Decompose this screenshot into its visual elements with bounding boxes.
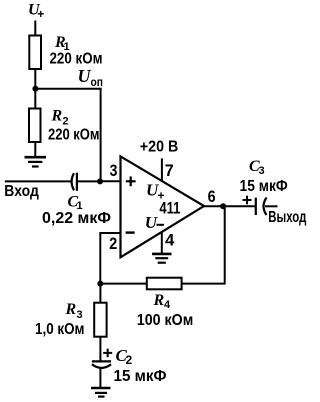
svg-text:U: U [145,213,158,232]
svg-text:4: 4 [165,230,175,249]
svg-text:3: 3 [110,161,118,180]
wire R2 to ground [34,142,36,157]
label R2 [51,108,69,128]
svg-text:Вход: Вход [4,183,39,200]
svg-text:R: R [65,301,77,318]
op-amp U1 triangle [121,156,205,257]
label U+ internal [146,181,165,203]
wire node A to R2 [34,89,36,109]
label Uop [78,66,104,89]
plus sign for C3 [243,196,252,205]
svg-text:U: U [78,66,92,86]
svg-text:оп: оп [91,75,104,89]
wire input from Vhod to C1 [5,180,71,182]
wire C1 to node B [77,180,100,182]
wire node C down to R3 [99,284,101,304]
svg-text:3: 3 [259,165,265,177]
svg-text:411: 411 [159,199,180,218]
wire C2 to ground [99,369,101,388]
wire op-amp output to node D [204,205,256,207]
node C junction dot [97,281,103,287]
plus sign for C2 [103,349,112,358]
ground below C2 [91,388,111,397]
node D junction dot [220,203,226,209]
node A junction dot [32,86,38,92]
node B junction dot [97,178,103,184]
label R3 [65,301,83,321]
resistor R4 [147,278,182,290]
resistor R3 [94,303,106,337]
wire node C to R4 [100,283,147,285]
wire node A to Uop corner down to node B [35,88,101,182]
svg-text:R: R [51,108,63,125]
svg-text:2: 2 [126,353,133,367]
svg-text:2: 2 [109,234,117,253]
svg-text:7: 7 [165,161,174,180]
resistor R2 [29,109,41,143]
wire R3 to C2 [99,337,101,362]
svg-text:4: 4 [164,299,171,311]
svg-text:+: + [37,7,44,21]
wire U+ to R1 [34,21,36,37]
svg-text:100 кОм: 100 кОм [137,312,194,329]
svg-text:Выход: Выход [268,209,306,226]
wire C3 to output [265,205,278,207]
ground below pin 4 [152,254,171,263]
capacitor C1 [72,173,77,191]
ground below R2 [25,157,47,166]
label R1 [54,34,70,53]
svg-text:220 кОм: 220 кОм [48,126,100,143]
minus marker at pin 2 input [126,231,135,233]
svg-text:1,0 кОм: 1,0 кОм [35,321,85,338]
svg-text:+20 В: +20 В [140,139,179,156]
capacitor C3 [256,198,267,216]
svg-text:15 мкФ: 15 мкФ [114,368,167,385]
svg-text:220 кОм: 220 кОм [50,51,103,68]
resistor R1 [29,36,41,70]
label C3 [249,158,265,177]
label R4 [153,292,172,311]
svg-text:0,22 мкФ: 0,22 мкФ [42,210,111,227]
wire R4 to output node [182,205,225,283]
pin 7 wire [161,158,163,182]
svg-text:R: R [153,292,165,309]
svg-text:3: 3 [77,309,83,321]
label C2 [116,346,133,367]
wire node B to pin 3 [100,180,121,182]
plus marker at pin 3 input [126,176,136,186]
svg-text:6: 6 [208,187,216,206]
pin 2 wire and down to node C [100,233,120,284]
label U- internal [145,213,164,232]
wire R1 to node A [34,69,36,89]
pin 4 wire [161,232,163,254]
label C1 [68,194,83,213]
capacitor C2 [92,361,111,368]
label U+ supply [28,2,44,22]
svg-text:15 мкФ: 15 мкФ [240,178,288,195]
